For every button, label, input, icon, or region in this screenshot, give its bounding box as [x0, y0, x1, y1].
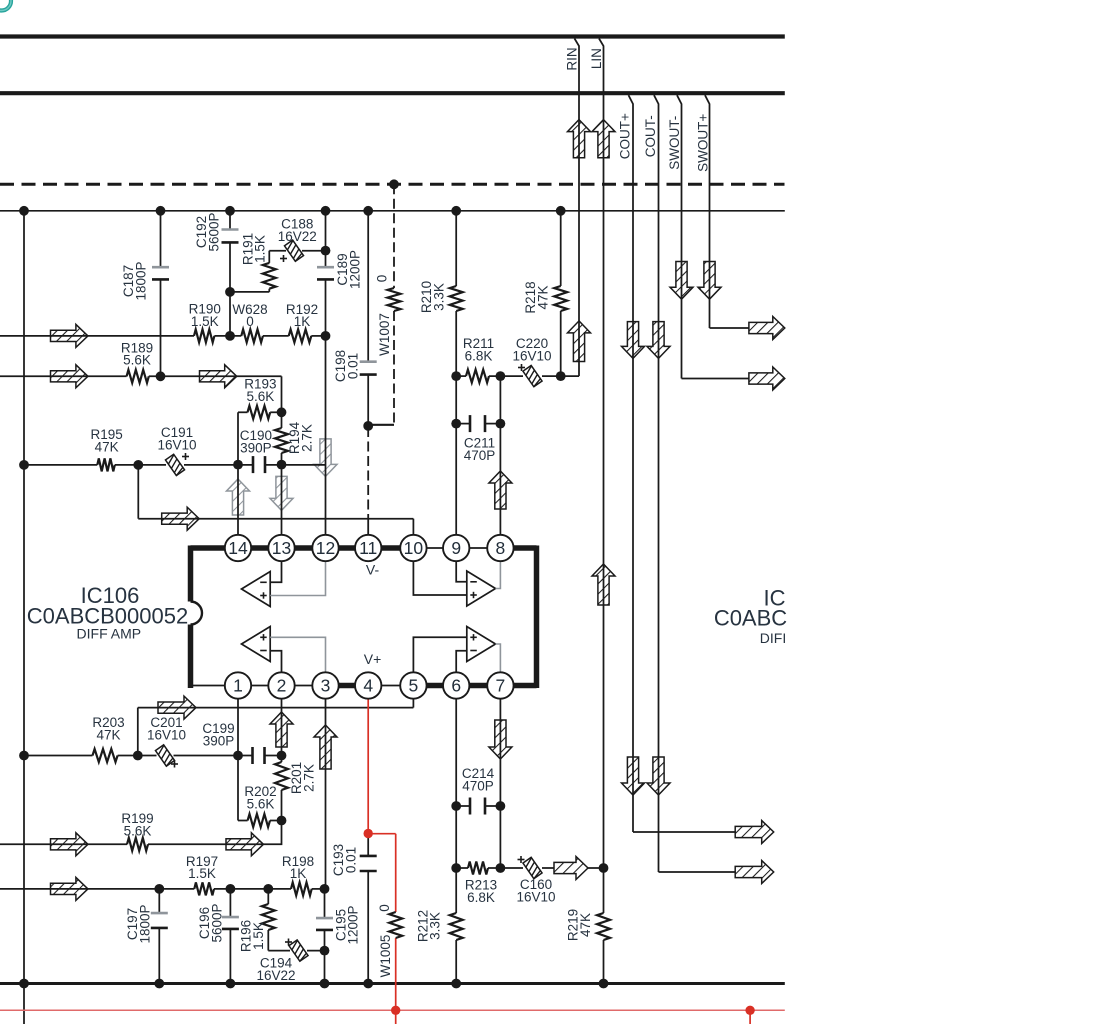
svg-text:47K: 47K: [535, 285, 550, 309]
svg-text:1800P: 1800P: [137, 904, 152, 943]
svg-text:16V10: 16V10: [157, 437, 196, 452]
svg-text:5.6K: 5.6K: [247, 389, 275, 404]
svg-text:3: 3: [321, 676, 331, 696]
svg-text:0: 0: [377, 904, 392, 912]
svg-text:1800P: 1800P: [133, 261, 148, 300]
svg-text:1.5K: 1.5K: [253, 235, 268, 263]
svg-text:5: 5: [409, 676, 419, 696]
svg-text:C0ABC: C0ABC: [714, 606, 787, 631]
svg-text:16V10: 16V10: [516, 889, 555, 904]
svg-text:47K: 47K: [578, 913, 593, 937]
svg-text:1.5K: 1.5K: [191, 314, 219, 329]
svg-text:5.6K: 5.6K: [124, 823, 152, 838]
svg-text:6.8K: 6.8K: [465, 348, 493, 363]
svg-text:5.6K: 5.6K: [123, 353, 151, 368]
svg-text:14: 14: [228, 538, 248, 558]
svg-text:RIN: RIN: [565, 47, 580, 70]
svg-text:W1007: W1007: [377, 313, 392, 356]
svg-text:12: 12: [316, 538, 335, 558]
svg-text:6.8K: 6.8K: [467, 890, 495, 905]
svg-text:13: 13: [272, 538, 291, 558]
svg-text:47K: 47K: [96, 727, 120, 742]
svg-text:0: 0: [246, 314, 254, 329]
svg-text:16V10: 16V10: [147, 727, 186, 742]
svg-text:V-: V-: [366, 562, 380, 578]
svg-text:5600P: 5600P: [210, 903, 225, 942]
svg-text:4: 4: [363, 676, 373, 696]
svg-text:16V22: 16V22: [256, 968, 295, 983]
svg-text:0.01: 0.01: [343, 847, 358, 873]
svg-text:DIFF AMP: DIFF AMP: [77, 626, 142, 642]
svg-text:LIN: LIN: [589, 48, 604, 69]
svg-text:1200P: 1200P: [346, 905, 361, 944]
svg-text:V+: V+: [364, 651, 382, 667]
svg-text:470P: 470P: [462, 778, 494, 793]
svg-text:470P: 470P: [464, 448, 496, 463]
svg-text:2.7K: 2.7K: [299, 424, 314, 452]
svg-text:5.6K: 5.6K: [247, 796, 275, 811]
svg-text:3.3K: 3.3K: [428, 912, 443, 940]
svg-text:47K: 47K: [95, 439, 119, 454]
svg-text:1.5K: 1.5K: [251, 922, 266, 950]
svg-text:0.01: 0.01: [345, 353, 360, 379]
svg-text:6: 6: [451, 676, 461, 696]
svg-text:1K: 1K: [290, 866, 307, 881]
svg-text:2.7K: 2.7K: [301, 764, 316, 792]
svg-text:COUT+: COUT+: [618, 113, 633, 159]
svg-text:16V10: 16V10: [512, 348, 551, 363]
svg-text:9: 9: [451, 538, 461, 558]
svg-text:8: 8: [496, 538, 506, 558]
svg-text:SWOUT-: SWOUT-: [667, 116, 682, 170]
svg-text:W1005: W1005: [378, 935, 393, 978]
svg-text:10: 10: [404, 538, 424, 558]
svg-text:0: 0: [375, 275, 390, 283]
svg-text:1: 1: [233, 676, 243, 696]
svg-text:11: 11: [359, 538, 377, 558]
svg-text:1K: 1K: [294, 314, 311, 329]
svg-text:DIFI: DIFI: [760, 630, 786, 646]
svg-text:5600P: 5600P: [206, 212, 221, 251]
svg-text:1200P: 1200P: [347, 250, 362, 289]
svg-text:COUT-: COUT-: [643, 115, 658, 157]
svg-text:7: 7: [496, 676, 506, 696]
svg-text:2: 2: [277, 676, 287, 696]
svg-text:SWOUT+: SWOUT+: [696, 114, 711, 172]
svg-text:390P: 390P: [240, 440, 272, 455]
svg-text:3.3K: 3.3K: [431, 283, 446, 311]
svg-text:1.5K: 1.5K: [188, 866, 216, 881]
svg-text:390P: 390P: [203, 733, 235, 748]
svg-text:16V22: 16V22: [278, 229, 317, 244]
